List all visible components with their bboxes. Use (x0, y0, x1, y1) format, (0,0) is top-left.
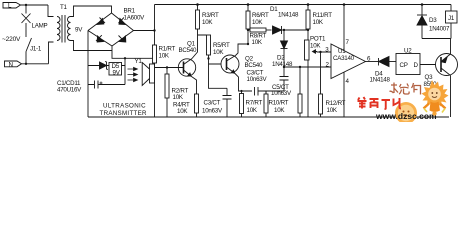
watermark mascot (422, 80, 449, 116)
svg-text:R1/RT: R1/RT (159, 46, 176, 53)
node dot detector to pot (307, 29, 309, 31)
node junction dot lamp branch (25, 4, 27, 6)
svg-text:1N4148: 1N4148 (272, 61, 293, 68)
wire bridge right corner to R1 column (134, 30, 155, 32)
resistor R11/RT (306, 5, 310, 30)
wire R1 column (154, 5, 156, 118)
svg-text:10K: 10K (327, 107, 338, 114)
diode D2 vertical (281, 30, 288, 67)
wire N to junction (22, 63, 49, 65)
svg-text:R3/RT: R3/RT (202, 12, 219, 19)
wire secondary top to bridge top (71, 6, 112, 17)
wire R11 to POT1 (307, 29, 309, 40)
D5 value box (109, 63, 122, 76)
wire to transformer primary bottom (49, 42, 54, 64)
wire detector node to op-amp pin2 (284, 66, 331, 68)
resistor R8/RT horizontal (248, 28, 272, 32)
node dot R5 bottom (207, 57, 209, 59)
svg-text:T1: T1 (60, 4, 68, 11)
node N tag (5, 61, 22, 67)
svg-text:1N4148: 1N4148 (278, 12, 299, 19)
svg-text:J1-1: J1-1 (30, 46, 42, 53)
svg-text:J1: J1 (448, 15, 455, 22)
node dot rail pin7 (343, 3, 346, 6)
svg-text:Q3: Q3 (425, 74, 434, 81)
wire Q3 collector down (450, 76, 452, 118)
svg-text:LAMP: LAMP (32, 23, 48, 30)
resistor R7/RT (240, 91, 244, 117)
diode D1 (273, 26, 308, 34)
svg-text:BC540: BC540 (179, 47, 197, 54)
wire Q3 emitter up (450, 39, 452, 55)
node dot detector (283, 66, 285, 68)
svg-text:470U16V: 470U16V (57, 87, 82, 94)
svg-text:~220V: ~220V (2, 36, 21, 43)
node dot rail R6 (247, 3, 250, 6)
svg-text:www.dzsc.com: www.dzsc.com (375, 111, 437, 121)
svg-text:C3/CT: C3/CT (204, 100, 221, 107)
svg-text:10K: 10K (177, 108, 188, 115)
svg-text:9V: 9V (113, 70, 121, 77)
wire R5 bottom node (209, 55, 228, 88)
svg-text:10K: 10K (159, 53, 170, 60)
svg-text:POT1: POT1 (310, 36, 326, 43)
svg-text:1A600V: 1A600V (124, 15, 146, 22)
node L tag (3, 3, 21, 9)
capacitor C2/CT (223, 88, 232, 117)
node dot rail R3 (196, 3, 199, 6)
bridge diode lower-left (96, 35, 104, 42)
bridge diode upper-left (97, 18, 105, 25)
svg-text:10K: 10K (252, 39, 263, 46)
svg-text:10K: 10K (247, 107, 258, 114)
node dot Q2 collector (247, 43, 249, 45)
svg-text:CP: CP (400, 62, 408, 69)
svg-text:R6/RT: R6/RT (252, 12, 269, 19)
wire wiper to pin3 (317, 51, 331, 54)
svg-text:D1: D1 (270, 6, 278, 13)
bridge rectifier BR1 diamond (88, 13, 134, 46)
resistor R2/RT (165, 68, 169, 118)
diode D4 (379, 57, 397, 67)
svg-text:9V: 9V (75, 27, 83, 34)
wire bridge bottom corner stub (112, 46, 155, 58)
resistor R9 column (298, 67, 302, 117)
capacitor C1 plates (95, 81, 103, 89)
svg-text:1N4148: 1N4148 (370, 77, 391, 84)
wire R3 bottom to R5 and Q1 collector (192, 29, 207, 59)
wire R6 column down (247, 29, 249, 44)
transformer T1 secondary winding (68, 17, 71, 41)
svg-text:R5/RT: R5/RT (213, 42, 230, 49)
bridge diode lower-right (119, 36, 126, 43)
node junction dot N (25, 63, 27, 65)
transistor Q2 (221, 55, 239, 74)
transducer Y1 speaker (142, 63, 154, 86)
node dot minus stub (124, 57, 126, 59)
wire Q1 emitter to R4 (192, 77, 197, 95)
wire capacitor C1 branch (88, 84, 125, 86)
resistor R1/RT body (153, 45, 157, 63)
svg-text:10n63V: 10n63V (202, 108, 223, 115)
node dot R9 tap (299, 66, 301, 68)
wire C3 to R10 node (258, 91, 266, 94)
node dot rail R11 (307, 3, 310, 6)
wire pin6 output (366, 61, 379, 63)
svg-text:10K: 10K (213, 49, 224, 56)
svg-text:10K: 10K (310, 43, 321, 50)
transistor Q3 (436, 54, 458, 76)
wire pin7 (343, 5, 345, 51)
IC U2 flip-flop box (396, 54, 420, 75)
svg-text:ULTRASONIC: ULTRASONIC (103, 103, 146, 110)
svg-text:10K: 10K (202, 19, 213, 26)
wire POT1 bottom (307, 60, 309, 117)
wire secondary bottom to bridge bottom (71, 41, 113, 51)
wire U2 out to Q3 base (420, 64, 441, 66)
svg-text:10K: 10K (252, 19, 263, 26)
wire L to junction (21, 4, 49, 6)
wire Q2 emitter down (235, 74, 252, 92)
node dot R8 tap (247, 29, 249, 31)
resistor R6/RT (246, 5, 250, 30)
wire zener D5 branch (88, 65, 125, 67)
wire D5 C1 right link (124, 58, 126, 84)
bridge diode upper-right (119, 18, 126, 25)
potentiometer POT1 (305, 40, 318, 60)
wire J1 coil bottom node (422, 38, 451, 40)
watermark weiku red text (358, 97, 402, 109)
wire Q1 base (155, 67, 184, 69)
resistor R4/RT (195, 94, 199, 117)
svg-text:10K: 10K (274, 107, 285, 114)
svg-text:R12/RT: R12/RT (326, 100, 346, 107)
node dot rail D3 (421, 3, 424, 6)
watermark zhao xin pian text (390, 83, 421, 95)
diode D3 vertical (417, 5, 427, 39)
svg-text:10n63V: 10n63V (247, 76, 268, 83)
node dot D2 tap (283, 29, 285, 31)
wire top to transformer primary top (48, 5, 54, 17)
op-amp U1 CA3140 (331, 44, 366, 79)
svg-text:U2: U2 (404, 48, 412, 55)
svg-text:1N4007: 1N4007 (429, 26, 450, 33)
svg-text:TRANSMITTER: TRANSMITTER (100, 110, 148, 117)
Y1 wave arrows (128, 67, 138, 81)
relay J1 box (446, 5, 458, 39)
watermark dzsc seal (395, 102, 417, 124)
resistor R12/RT (319, 52, 323, 117)
svg-text:U1: U1 (338, 48, 346, 55)
svg-text:R10/RT: R10/RT (269, 100, 289, 107)
node dot bridge plus (153, 29, 155, 31)
svg-text:CA3140: CA3140 (333, 55, 355, 62)
wire lamp top (25, 5, 27, 14)
transformer T1 primary winding (57, 17, 60, 41)
svg-text:BR1: BR1 (124, 8, 136, 15)
resistor R3/RT (196, 5, 200, 30)
switch J1-1 (26, 38, 32, 52)
resistor R10/RT (264, 91, 268, 117)
svg-text:10K: 10K (173, 94, 184, 101)
svg-text:Y1: Y1 (135, 58, 143, 65)
zener D5 (100, 62, 109, 70)
wire Q2 collector to R6 column (236, 44, 249, 56)
wire bottom ground rail (88, 116, 449, 118)
svg-text:BC540: BC540 (245, 62, 263, 69)
transistor Q1 (178, 59, 195, 77)
svg-text:N: N (9, 61, 13, 68)
lamp LAMP (22, 14, 31, 24)
capacitor C3/CT (255, 87, 259, 96)
capacitor C5/CT (266, 67, 289, 91)
wire bridge left corner down ground rail (87, 31, 89, 118)
svg-text:R7/RT: R7/RT (246, 100, 263, 107)
watermark www.dzsc.com (375, 111, 437, 121)
node dot base divider (166, 66, 168, 68)
node dot emitter R7 (240, 90, 242, 92)
wire pin4 (343, 72, 345, 117)
node dot R12 tap (319, 51, 321, 53)
wire top rail (155, 4, 452, 6)
wire lamp to switch (25, 23, 27, 37)
wire switch bottom (25, 52, 27, 64)
svg-text:R11/RT: R11/RT (313, 12, 333, 19)
svg-text:D3: D3 (429, 17, 437, 24)
svg-text:10K: 10K (313, 19, 324, 26)
transformer T1 core (62, 15, 65, 43)
svg-text:10n63V: 10n63V (271, 90, 292, 97)
resistor R5/RT (207, 35, 211, 55)
wire Q2 base (209, 63, 227, 65)
